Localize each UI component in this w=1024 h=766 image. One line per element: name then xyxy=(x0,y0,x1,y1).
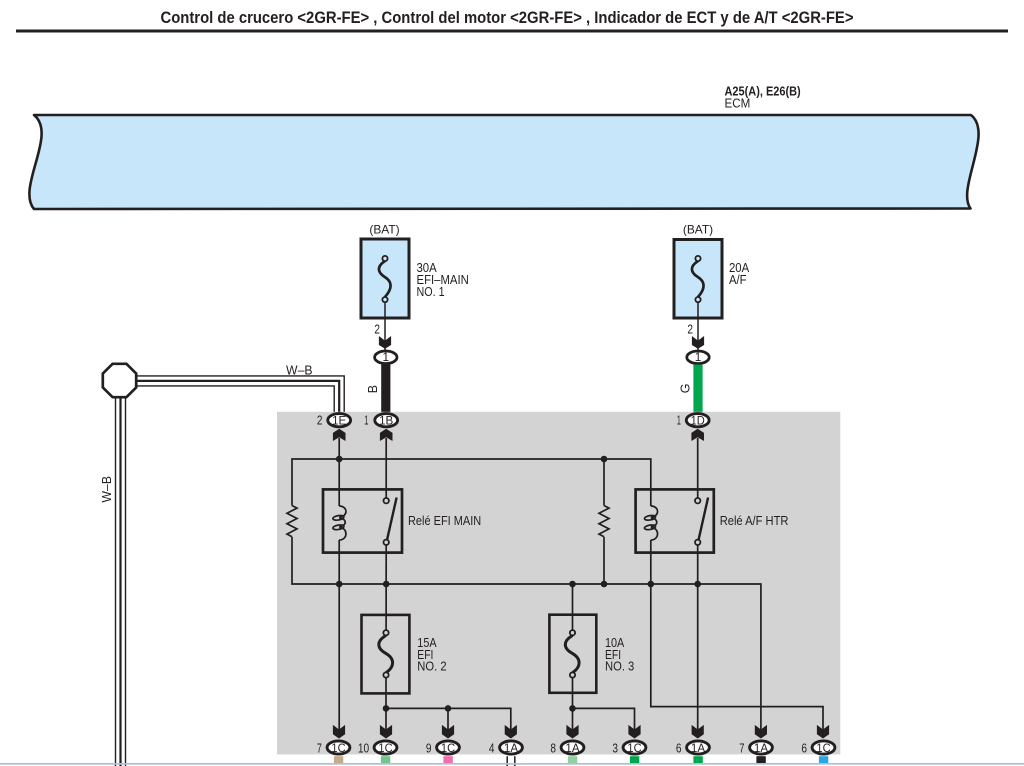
svg-text:10: 10 xyxy=(358,741,369,755)
svg-text:1E: 1E xyxy=(332,413,346,427)
svg-text:W–B: W–B xyxy=(286,364,313,378)
svg-text:ECM: ECM xyxy=(725,97,751,111)
relay block (gray box) xyxy=(277,412,840,755)
svg-text:Relé A/F HTR: Relé A/F HTR xyxy=(720,514,789,528)
junction dot: fuse 15A output branch xyxy=(383,705,390,712)
svg-text:1C: 1C xyxy=(816,741,831,755)
junction dot: branch to 9 1C xyxy=(445,705,452,712)
svg-text:1A: 1A xyxy=(565,741,579,755)
svg-text:1C: 1C xyxy=(441,741,456,755)
junction dot: coil wire / bus 2 xyxy=(336,581,343,588)
relay EFI MAIN box xyxy=(323,489,402,552)
svg-text:Relé EFI MAIN: Relé EFI MAIN xyxy=(408,514,481,528)
relay EFI MAIN switch xyxy=(387,498,397,541)
junction dot: fuse 10A / bus 2 xyxy=(569,581,576,588)
junction octagon xyxy=(103,364,136,397)
svg-text:B: B xyxy=(366,385,380,393)
connector 1D xyxy=(677,413,709,441)
relay EFI MAIN coil xyxy=(333,506,346,540)
bottom connector 6 1A xyxy=(676,725,709,764)
svg-text:8: 8 xyxy=(550,741,556,755)
svg-text:7: 7 xyxy=(317,741,322,755)
junction dot: resistor R2 / bus 1 xyxy=(601,456,608,463)
relay A/F HTR switch xyxy=(699,498,709,541)
bottom connector 10 1C xyxy=(358,725,397,764)
svg-text:(BAT): (BAT) xyxy=(369,222,399,236)
wire 1B to switch to fuse 15A xyxy=(385,438,387,498)
arrow into connector 1 xyxy=(379,336,391,349)
wire 1E to coil to 7 1C xyxy=(338,438,340,506)
svg-text:9: 9 xyxy=(426,741,432,755)
svg-text:6: 6 xyxy=(801,741,807,755)
relay A/F HTR coil xyxy=(644,506,657,540)
wire from fuse F1 pin 2 xyxy=(384,302,386,350)
bottom connector 8 1A xyxy=(550,725,583,764)
wire fuse 10A top xyxy=(572,584,574,630)
svg-text:2: 2 xyxy=(317,414,323,428)
svg-text:W–B: W–B xyxy=(100,476,114,503)
svg-text:7: 7 xyxy=(739,741,744,755)
relay A/F HTR box xyxy=(636,489,714,552)
svg-text:6: 6 xyxy=(676,741,682,755)
fuse F3 15A EFI NO.2 xyxy=(362,615,447,694)
junction dot: A/F coil / bus 2 xyxy=(648,581,655,588)
svg-text:1C: 1C xyxy=(331,741,346,755)
wire fuse 15A bottom branch xyxy=(385,678,387,731)
bus 1 (upper horizontal) xyxy=(292,459,651,506)
wire right coil to 6 1C xyxy=(651,540,823,731)
junction dot: 1E wire / bus 1 xyxy=(336,456,343,463)
svg-text:1: 1 xyxy=(364,414,368,428)
fuse F1 30A EFI-MAIN NO.1 xyxy=(361,222,469,318)
bottom connector 7 1C xyxy=(317,725,350,764)
junction dot: resistor R2 / bus 2 xyxy=(601,581,608,588)
resistor R1 (left) xyxy=(287,506,297,537)
svg-text:3: 3 xyxy=(612,741,618,755)
svg-text:NO. 2: NO. 2 xyxy=(417,660,446,674)
svg-text:1C: 1C xyxy=(627,741,642,755)
svg-text:1: 1 xyxy=(383,350,390,364)
wire B (black) xyxy=(381,365,390,413)
resistor R2 (right) xyxy=(599,506,609,537)
svg-text:2: 2 xyxy=(687,323,693,337)
svg-text:1A: 1A xyxy=(691,741,705,755)
bottom connector 6 1C xyxy=(801,725,834,764)
ECM module band xyxy=(29,115,978,209)
wire W-B horizontal (double line) xyxy=(135,376,344,413)
title underline xyxy=(16,30,1008,33)
wire 1D to switch to 6 1A xyxy=(697,438,699,498)
arrow into connector 1 xyxy=(692,336,704,349)
fuse F2 20A A/F xyxy=(674,222,750,318)
connector 1E xyxy=(317,413,351,441)
svg-text:NO. 1: NO. 1 xyxy=(417,285,445,299)
svg-text:(BAT): (BAT) xyxy=(683,222,713,236)
wire G (green) xyxy=(693,365,702,413)
bus 2 (lower horizontal) xyxy=(292,537,761,731)
bottom connector 4 1A xyxy=(489,725,523,766)
fuse F4 10A EFI NO.3 xyxy=(549,615,634,693)
junction dot: fuse 10A output branch xyxy=(569,705,576,712)
junction dot: A/F switch / bus 2 xyxy=(694,581,701,588)
svg-text:1: 1 xyxy=(695,350,702,364)
wire W-B vertical (double line) xyxy=(115,396,117,766)
svg-text:A/F: A/F xyxy=(729,273,747,287)
svg-text:2: 2 xyxy=(374,323,380,337)
svg-text:G: G xyxy=(679,384,693,394)
junction dot: switch wire / bus 2 xyxy=(383,581,390,588)
svg-text:4: 4 xyxy=(489,741,495,755)
svg-text:1A: 1A xyxy=(754,741,768,755)
svg-text:1A: 1A xyxy=(504,741,518,755)
connector 1 (left) xyxy=(375,351,397,364)
svg-text:1: 1 xyxy=(677,414,681,428)
bottom connector 9 1C xyxy=(426,725,460,764)
bottom connector 3 1C xyxy=(612,725,645,764)
svg-text:1D: 1D xyxy=(691,413,705,427)
page bottom blue line xyxy=(0,763,1024,765)
svg-text:Control de crucero <2GR-FE> ,: Control de crucero <2GR-FE> , Control de… xyxy=(161,9,854,27)
connector 1B xyxy=(364,413,397,441)
bottom connector 7 1A xyxy=(739,725,772,764)
wire from fuse F2 pin 2 xyxy=(697,302,699,350)
svg-text:1C: 1C xyxy=(378,741,393,755)
wire resistor R2 to buses xyxy=(603,459,605,506)
svg-text:1B: 1B xyxy=(379,413,393,427)
connector 1 (right) xyxy=(687,351,709,364)
svg-text:NO. 3: NO. 3 xyxy=(605,660,634,674)
wire fuse 10A bottom branch xyxy=(572,678,574,731)
